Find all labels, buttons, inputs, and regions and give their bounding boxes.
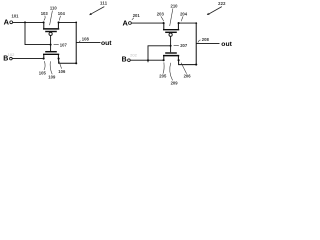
wire Q3 gate lead down to Q4 gate (170, 36, 172, 52)
svg-text:209: 209 (171, 80, 179, 85)
transistor Q1 left source drop (43, 22, 45, 28)
node bottom corner dot (right) (195, 64, 197, 66)
svg-text:204: 204 (180, 11, 188, 16)
leader 206 (181, 63, 187, 74)
svg-text:222: 222 (218, 1, 226, 6)
wire Q1 gate lead down to Q2 gate (50, 36, 52, 51)
transistor Q1 right drain drop (57, 22, 59, 28)
svg-text:out: out (101, 40, 112, 47)
node junction on A wire (24, 21, 26, 23)
transistor Q3 right contact dot (178, 22, 180, 24)
svg-text:104: 104 (58, 11, 66, 16)
node top corner dot (75, 22, 77, 24)
transistor Q4 right drop (177, 56, 179, 60)
svg-text:110: 110 (50, 6, 57, 11)
leader 108 (79, 41, 80, 43)
svg-text:206: 206 (184, 74, 192, 79)
terminal A circle (10, 21, 13, 24)
svg-text:210: 210 (171, 4, 179, 9)
transistor Q3 (210) left contact dot (163, 22, 165, 24)
leader 109 (50, 61, 52, 74)
svg-text:A: A (4, 17, 10, 26)
transistor Q2 right contact dot (58, 58, 60, 60)
transistor Q4 (209) gate bar (165, 52, 177, 54)
transistor Q1 gate bar (45, 31, 57, 33)
wire gate net (A junction down and right) (25, 22, 50, 44)
wire B to Q4 left contact (130, 59, 163, 61)
wire B to Q2 left contact (12, 58, 42, 60)
wire A rail right segment (59, 21, 77, 23)
wire A to Q3 left contact (131, 22, 163, 24)
svg-text:208: 208 (202, 37, 210, 42)
leader 104 (59, 16, 60, 21)
svg-text:102: 102 (8, 52, 15, 57)
transistor Q4 right contact dot (178, 59, 180, 61)
transistor Q2 left contact dot (43, 58, 45, 60)
terminal A circle (right) (129, 22, 132, 25)
transistor Q2 right drop (57, 55, 59, 59)
leader 209 (170, 63, 173, 81)
transistor Q3 right drop (177, 23, 179, 29)
svg-text:202: 202 (130, 53, 137, 58)
transistor Q3 gate bubble (PMOS) (169, 33, 172, 36)
leader 201 (132, 18, 134, 20)
svg-text:101: 101 (12, 14, 20, 19)
svg-text:111: 111 (100, 1, 108, 6)
transistor Q4 left contact dot (163, 59, 165, 61)
terminal B circle (10, 57, 13, 60)
wire Q2 right contact to right rail (59, 59, 77, 64)
svg-text:107: 107 (60, 42, 68, 47)
wire A rail right segment (right) (179, 22, 197, 24)
leader 105 (44, 61, 45, 70)
leader 207 (174, 44, 179, 47)
svg-text:109: 109 (48, 75, 56, 80)
leader 103 (44, 16, 45, 21)
leader 203 (161, 16, 164, 21)
wire right vertical rail (75, 22, 77, 63)
svg-text:B: B (122, 57, 127, 64)
svg-text:207: 207 (180, 43, 188, 48)
svg-text:103: 103 (41, 11, 49, 16)
leader 204 (181, 16, 183, 21)
wire Q4 right contact to right rail (179, 60, 197, 64)
leader 205 (163, 62, 164, 73)
svg-text:205: 205 (159, 74, 167, 79)
transistor Q1 right contact dot (58, 21, 60, 23)
node junction on B wire (147, 59, 149, 61)
svg-text:A: A (123, 19, 129, 28)
svg-text:203: 203 (157, 11, 165, 16)
leader 106 (59, 61, 62, 69)
leader 210 (170, 8, 173, 26)
node top corner dot (right) (195, 22, 197, 24)
wire right vertical rail (right) (195, 23, 197, 65)
svg-text:out: out (221, 41, 232, 48)
transistor Q1 (110) left contact dot (43, 21, 45, 23)
svg-text:106: 106 (58, 69, 66, 74)
wire A to Q1 left contact (13, 21, 43, 23)
svg-text:105: 105 (39, 71, 47, 76)
transistor Q1 gate bubble (PMOS) (49, 32, 52, 35)
transistor Q4 left drop (163, 56, 165, 60)
leader 208 (198, 40, 201, 43)
transistor Q2 left drop (43, 55, 45, 59)
transistor Q4 channel bar (163, 55, 179, 57)
node gate junction dot (right) (170, 45, 172, 47)
terminal B circle (right) (128, 59, 131, 62)
transistor Q2 channel bar (43, 53, 59, 55)
svg-text:201: 201 (133, 13, 141, 18)
transistor Q1 channel bar (43, 28, 59, 30)
wire out line (76, 41, 100, 43)
svg-text:B: B (3, 55, 8, 62)
leader 107 (54, 43, 59, 46)
wire out line (right) (196, 42, 219, 44)
node bottom corner dot (75, 62, 77, 64)
transistor Q3 left drop (163, 23, 165, 29)
leader 110 (50, 11, 53, 26)
transistor Q2 (109) gate bar (45, 51, 57, 53)
arrow 111 (91, 7, 105, 15)
transistor Q3 channel bar (163, 29, 179, 31)
svg-text:108: 108 (82, 36, 90, 41)
wire gate net to B (148, 46, 171, 62)
transistor Q3 gate bar (165, 31, 177, 33)
arrow 222 (209, 7, 222, 14)
node gate junction dot (50, 44, 52, 46)
